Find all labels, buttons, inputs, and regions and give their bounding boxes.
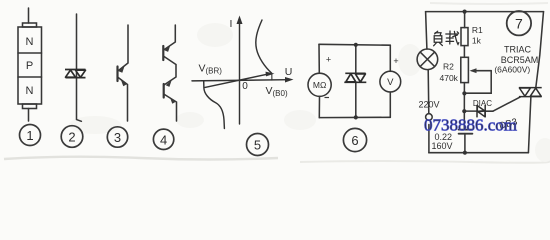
megohmmeter M [308, 73, 331, 96]
arrowhead axis I [237, 16, 243, 25]
wire left lower [318, 96, 320, 117]
wire bottom lead [118, 77, 128, 121]
base bar lower transistor [163, 84, 165, 98]
svg-text:6: 6 [351, 133, 358, 148]
svg-text:DIAC: DIAC [473, 99, 492, 108]
wire top lead [119, 25, 129, 71]
wire left lower [428, 125, 430, 153]
wire top lead [28, 8, 30, 23]
circled number 1 [20, 125, 41, 146]
svg-text:2: 2 [68, 130, 75, 145]
label 负载 hand-drawn [434, 31, 459, 46]
arrow into bar upper [119, 66, 125, 73]
diac top bar [65, 69, 86, 71]
arrow upper transistor [164, 45, 170, 52]
triac bottom bar [519, 96, 542, 98]
arrow lower transistor into bar [166, 80, 172, 87]
lamp X stroke 1 [420, 52, 434, 66]
svg-text:0: 0 [242, 81, 248, 92]
voltmeter V [380, 71, 401, 92]
capacitor bottom plate [459, 133, 473, 135]
scan smudge top right [430, 3, 548, 4]
panel 3: transistor-like diac equivalent [118, 25, 129, 121]
wire left upper [318, 44, 320, 73]
diac DUT right triangle [355, 74, 365, 82]
scan smudge bottom right [300, 161, 549, 163]
svg-text:MΩ: MΩ [313, 80, 326, 90]
wire R1 to R2 [463, 46, 465, 58]
diac right triangle [76, 70, 86, 77]
svg-text:R1: R1 [472, 25, 483, 35]
curve quadrant 3 [204, 81, 225, 129]
gate diagonal wire [493, 97, 520, 111]
diac DUT left triangle [346, 74, 356, 82]
V(B0) drop segment [271, 73, 273, 80]
axis U horizontal [192, 80, 289, 81]
junction node R2 bottom [462, 91, 466, 95]
junction node capacitor bottom [463, 151, 467, 155]
junction node diac tap [462, 109, 466, 113]
wire R2 bottom down to capacitor [463, 83, 465, 130]
svg-text:R2: R2 [443, 62, 454, 72]
svg-text:4: 4 [160, 132, 167, 147]
diac trigger lower triangle [478, 111, 486, 117]
resistor R1 body [461, 28, 468, 46]
diac DUT top bar [345, 72, 365, 74]
triac right triangle [530, 88, 541, 96]
wire right upper [389, 45, 391, 71]
circled number 7 [507, 11, 531, 35]
panel 6: test circuit with megohmmeter and voltmeter [308, 44, 401, 117]
svg-text:7: 7 [515, 16, 523, 32]
circled number 3 [107, 127, 127, 147]
circled number 5 [247, 134, 269, 156]
label minus left [325, 97, 330, 99]
wire middle upper [355, 45, 357, 73]
wire bottom [319, 116, 390, 118]
diac trigger upper triangle [477, 106, 485, 112]
NPN body box [18, 27, 42, 104]
wire triac main upper [536, 12, 544, 88]
svg-text:P: P [26, 60, 33, 72]
triac left triangle [519, 88, 530, 96]
curve quadrant 1 [256, 20, 272, 73]
wire bottom lead [28, 109, 30, 122]
wire capacitor to bottom [464, 134, 466, 153]
wire right lower [389, 92, 391, 117]
svg-text:1: 1 [26, 128, 33, 143]
svg-text:3: 3 [114, 130, 121, 145]
wire left upper [426, 12, 427, 49]
wire top [319, 43, 390, 46]
svg-text:TRIAC: TRIAC [504, 44, 532, 54]
panel 4: two-transistor equivalent [163, 25, 176, 121]
junction node bottom [354, 115, 358, 119]
wire R1 top [464, 12, 466, 28]
arrow outward lower [121, 80, 127, 87]
base bar upper transistor [162, 46, 164, 60]
circled number 2 [61, 126, 83, 148]
diac trigger left bar [476, 105, 478, 118]
arrowhead at V(B0) [266, 72, 275, 77]
R2 wiper arrow line [472, 70, 491, 72]
diac trigger right bar [484, 105, 486, 118]
terminal circle [426, 114, 433, 121]
panel 2: diac symbol vertical [77, 14, 82, 121]
svg-text:N: N [26, 85, 34, 97]
bottom contact tab [23, 104, 37, 109]
wire middle lower [355, 82, 357, 117]
scan paper blotches [69, 23, 550, 162]
panel 5: I-U characteristic curve [192, 20, 289, 129]
potentiometer R2 body [461, 57, 469, 82]
wire bottom lead [164, 94, 177, 121]
svg-text:N: N [26, 36, 34, 48]
svg-text:220V: 220V [419, 100, 440, 110]
wire top lead [164, 25, 175, 50]
junction divider N/P [18, 52, 42, 54]
svg-text:160V: 160V [432, 141, 453, 151]
axis I vertical [239, 20, 241, 124]
svg-text:V: V [387, 77, 394, 88]
junction node top [354, 43, 358, 47]
R2 wiper return path [464, 71, 491, 94]
svg-text:+: + [393, 56, 398, 66]
diac bottom bar [66, 77, 86, 79]
wire to diac branch [464, 110, 476, 112]
top contact tab [23, 23, 37, 27]
svg-text:BCR5AM: BCR5AM [501, 55, 539, 65]
wire lamp to terminal [427, 70, 430, 114]
wire diac to gate bend [485, 110, 493, 112]
svg-text:I: I [230, 18, 233, 30]
scan smudge bottom left [4, 157, 278, 160]
circled number 4 [153, 129, 173, 149]
triac top bar [519, 87, 542, 89]
junction divider P/N [18, 76, 42, 78]
negative resistance diagonal line [205, 73, 272, 87]
svg-text:470k: 470k [440, 73, 459, 83]
wire vertical [76, 14, 78, 120]
junction node top rail [463, 10, 467, 14]
arrowhead axis U [285, 77, 294, 83]
svg-text:(6A600V): (6A600V) [494, 65, 530, 75]
panel 7: dimmer application circuit [417, 12, 543, 155]
diac DUT bottom bar [344, 81, 366, 83]
lamp load [417, 49, 438, 70]
arrow bottom emitter [170, 97, 176, 104]
svg-text:5: 5 [254, 138, 261, 153]
svg-text:+: + [326, 55, 331, 65]
wire triac main lower [528, 97, 531, 153]
capacitor top plate [459, 129, 473, 131]
wire bottom [429, 152, 529, 154]
wire middle link [163, 56, 176, 85]
svg-text:U: U [285, 66, 293, 78]
diac left triangle [66, 70, 76, 77]
circled number 6 [343, 128, 366, 151]
svg-text:0738886.com: 0738886.com [424, 116, 517, 135]
base bar [116, 67, 118, 82]
wire top [426, 11, 544, 13]
R2 wiper arrowhead [470, 68, 477, 73]
svg-text:1k: 1k [472, 36, 482, 46]
lamp X stroke 2 [420, 52, 434, 66]
wire tick bottom [77, 120, 81, 122]
